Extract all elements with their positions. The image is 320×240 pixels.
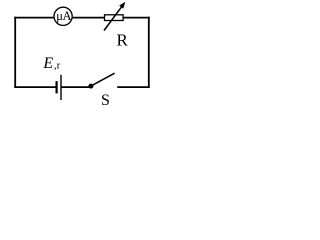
battery short plate (negative) — [55, 81, 57, 93]
wire top-right segment — [123, 17, 150, 19]
rheostat arrow shaft — [104, 7, 122, 31]
microammeter U1 circle — [54, 7, 72, 25]
rheostat R rectangle — [105, 15, 124, 21]
wire battery-to-switch segment — [61, 86, 91, 88]
switch S contact dot — [88, 84, 93, 89]
rheostat arrowhead — [119, 2, 125, 9]
battery long plate (positive) — [60, 75, 62, 100]
svg-text:R: R — [117, 30, 129, 49]
switch S lever — [91, 73, 114, 86]
wire bottom-right segment — [117, 86, 150, 88]
wire right vertical — [148, 17, 150, 88]
svg-text:μA: μA — [56, 9, 71, 23]
wire top-middle segment — [72, 17, 105, 19]
svg-text:S: S — [101, 92, 110, 109]
wire bottom-left segment — [14, 86, 56, 88]
wire left vertical — [14, 17, 16, 88]
wire top-left segment — [14, 17, 54, 19]
